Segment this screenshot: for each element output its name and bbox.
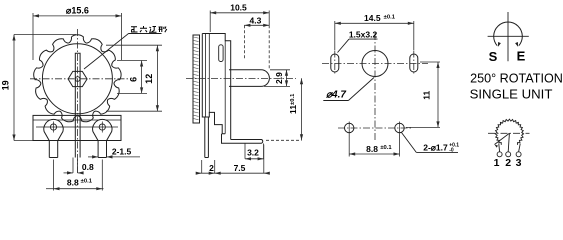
pot icon legs [498, 144, 501, 152]
left mounting slot 1.5x3.2 [331, 54, 339, 72]
side view body outline with staircase bottom [202, 34, 230, 140]
svg-text:⌀15.6: ⌀15.6 [66, 6, 89, 16]
center lines of gear [77, 29, 79, 173]
label D4.7 with leader [323, 100, 348, 102]
svg-text:SINGLE UNIT: SINGLE UNIT [470, 87, 553, 102]
label regular-hexagon (hanzi) with leader [129, 33, 162, 35]
rotation arc 250 deg [494, 22, 523, 46]
shaft slot (vertical, 0.8 wide) [75, 53, 80, 56]
gear wheel outer teeth (front view) [34, 35, 121, 122]
bottom pin hole left [345, 123, 354, 132]
svg-text:11±0.1: 11±0.1 [288, 93, 298, 114]
svg-text:250° ROTATION: 250° ROTATION [470, 71, 563, 85]
svg-text:0.8: 0.8 [82, 162, 94, 172]
svg-text:1: 1 [494, 157, 500, 169]
potentiometer icon knurled circle [495, 119, 523, 145]
pin stems below body [48, 141, 50, 158]
svg-text:6: 6 [129, 77, 139, 82]
big hole D4.7 [362, 51, 388, 77]
dimension 11 (mounting right) [420, 61, 440, 63]
dimension 6 (right of gear) [117, 60, 147, 62]
dimension 8.8 +-0.1 (mounting) [348, 135, 350, 157]
pot icon wiper arm [495, 133, 510, 144]
svg-text:3: 3 [516, 157, 522, 169]
svg-text:8.8: 8.8 [67, 177, 79, 187]
svg-text:E: E [517, 49, 526, 64]
svg-text:4.3: 4.3 [249, 15, 261, 25]
terminal rivet dome at x=102.3 [93, 119, 112, 140]
svg-text:10.5: 10.5 [230, 3, 247, 13]
dimension 2.9 (shaft height) [270, 69, 290, 71]
gear inner circle [42, 44, 112, 114]
label 1.5x3.2 with leader [349, 38, 378, 40]
svg-text:-0: -0 [449, 148, 454, 154]
bottom pin hole right [395, 123, 404, 132]
dimension 12 (right of gear) [106, 44, 162, 46]
svg-text:2.9: 2.9 [274, 72, 284, 84]
svg-text:19: 19 [1, 80, 11, 90]
dimension 2 / 7.5 (bottom side view) [201, 160, 203, 173]
svg-text:8.8: 8.8 [366, 144, 378, 154]
pot icon terminals [497, 152, 502, 157]
dimension 3.2 (foot) [244, 144, 246, 159]
arc arrowheads [498, 42, 501, 47]
svg-text:2: 2 [209, 163, 214, 173]
body inner layer lines (side view) [205, 34, 207, 118]
bracket foot (side view) [222, 134, 263, 144]
svg-text:11: 11 [422, 90, 432, 99]
side view center line [186, 78, 296, 80]
label 2-D1.7 +0.1/-0 with leader [402, 133, 417, 153]
dimension 14.5 +-0.1 [335, 22, 414, 24]
terminal rivet center mark at x=53.5 [50, 124, 56, 130]
dimension 0.8 (slot width) [72, 158, 74, 173]
hexagon shaft hole (regular hexagon) [68, 71, 87, 86]
svg-text:7.5: 7.5 [234, 163, 246, 173]
svg-text:2-1.5: 2-1.5 [112, 147, 132, 157]
svg-text:±0.1: ±0.1 [380, 145, 392, 151]
top mounting tab (side view) [219, 45, 223, 62]
svg-text:1.5x3.2: 1.5x3.2 [349, 29, 378, 39]
dimension 4.3 (shaft protrusion) [244, 24, 269, 26]
dimension 11 +-0.1 (center to foot) [266, 139, 302, 141]
terminal rivet center mark at x=102.3 [99, 124, 105, 130]
mounting view center lines [374, 33, 376, 142]
svg-text:±0.1: ±0.1 [384, 14, 396, 20]
body rectangle (front view) [33, 115, 121, 140]
pin center line across body [36, 126, 118, 128]
svg-text:S: S [489, 49, 498, 64]
shaft (side view) with round end [229, 70, 269, 87]
pot icon center line [488, 132, 530, 134]
svg-text:±0.1: ±0.1 [81, 179, 93, 185]
side view wheel profile [193, 35, 200, 123]
svg-text:2: 2 [505, 157, 511, 169]
svg-text:2-⌀1.7: 2-⌀1.7 [423, 143, 448, 153]
dimension 10.5 (side overall width) [210, 12, 269, 14]
svg-text:14.5: 14.5 [364, 13, 381, 23]
small circle at hexagon center [75, 77, 80, 82]
dimension 19 (overall height, left) [12, 35, 76, 141]
svg-text:3.2: 3.2 [247, 148, 259, 158]
terminal rivet dome at x=53.5 [44, 119, 63, 140]
svg-text:⌀4.7: ⌀4.7 [326, 90, 346, 101]
right mounting slot 1.5x3.2 [410, 54, 418, 72]
svg-text:12: 12 [144, 74, 154, 84]
body inner line (front view) [33, 119, 121, 121]
dimension 2-1.5 (pin stems) [88, 156, 98, 158]
dimension 8.8 +-0.1 (pin spacing front) [53, 160, 55, 191]
pin below body (side view) [204, 117, 206, 158]
front view: dimension line D15.6 (gear outer diameter) [33, 13, 122, 60]
rotation symbol crosshair [488, 35, 529, 37]
